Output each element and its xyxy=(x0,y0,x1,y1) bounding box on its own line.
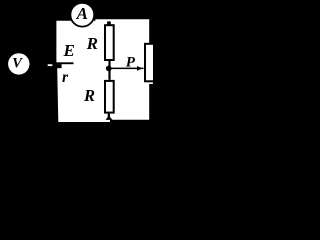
tap wire to rheostat slider xyxy=(109,68,144,70)
wire stub below R2 xyxy=(108,114,110,118)
svg-text:A: A xyxy=(76,4,88,23)
bottom junction blob xyxy=(106,117,113,120)
junction node dot xyxy=(106,66,112,72)
rheostat white pocket xyxy=(149,45,153,84)
svg-text:r: r xyxy=(62,69,69,86)
svg-text:R: R xyxy=(86,34,98,53)
wire between resistors xyxy=(108,61,110,80)
svg-text:P: P xyxy=(126,54,136,70)
ammeter A xyxy=(70,3,94,27)
battery white gap sliver xyxy=(48,64,53,66)
voltmeter V xyxy=(8,53,29,74)
battery long thin plate (+) xyxy=(50,62,74,64)
circuit interior white panel xyxy=(56,19,149,122)
resistor R2 (bottom) xyxy=(105,81,114,113)
svg-text:R: R xyxy=(83,86,95,105)
wire stub from top wire down to resistor R1 xyxy=(107,21,111,24)
rheostat box xyxy=(145,44,154,82)
resistor R1 (top) xyxy=(105,25,114,60)
arrow head P xyxy=(137,66,142,71)
svg-text:E: E xyxy=(63,41,75,60)
svg-text:V: V xyxy=(12,56,23,72)
battery short thick plate (-) xyxy=(52,64,61,68)
